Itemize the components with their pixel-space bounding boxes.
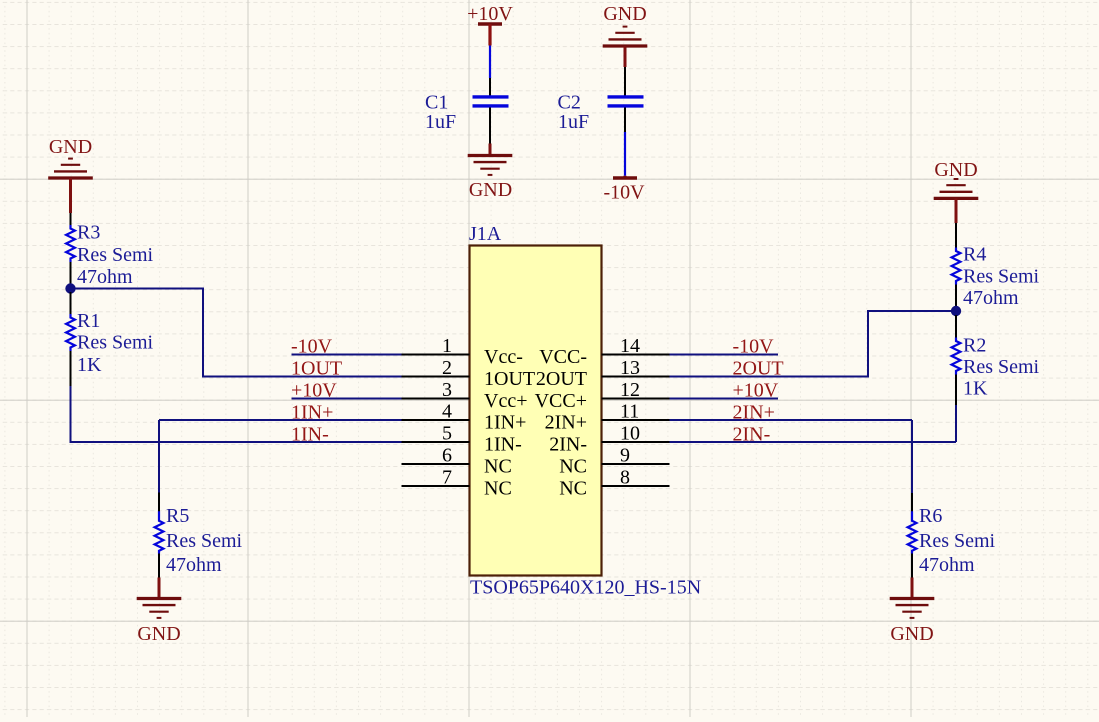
connector J1A body <box>470 246 602 576</box>
resistor R6 <box>908 511 917 553</box>
svg-text:GND: GND <box>49 136 92 158</box>
svg-text:8: 8 <box>620 467 630 489</box>
svg-text:2IN-: 2IN- <box>733 423 771 445</box>
svg-text:2OUT: 2OUT <box>733 358 784 380</box>
power port -10V bar <box>613 176 637 179</box>
svg-text:-10V: -10V <box>291 336 333 358</box>
svg-text:9: 9 <box>620 445 630 467</box>
svg-text:C1: C1 <box>425 91 448 113</box>
svg-text:GND: GND <box>934 159 977 181</box>
R3 top pin <box>70 213 72 225</box>
C2 bottom pin <box>624 108 626 133</box>
wire net 2IN+ <box>670 419 913 421</box>
C1 bottom pin <box>489 108 491 144</box>
wire net +10V right <box>670 398 779 400</box>
junction node R4/R2 <box>951 306 961 316</box>
svg-text:NC: NC <box>559 456 587 478</box>
ground stem C2 <box>624 46 627 67</box>
svg-text:1IN+: 1IN+ <box>484 412 526 434</box>
C2 top pin <box>624 67 626 96</box>
svg-text:+10V: +10V <box>291 380 337 402</box>
ground stem above R3 <box>69 178 72 213</box>
svg-text:GND: GND <box>890 623 933 645</box>
pin 8 <box>602 485 670 487</box>
svg-text:1: 1 <box>442 335 452 357</box>
pin 1 <box>402 354 470 356</box>
svg-text:7: 7 <box>442 467 452 489</box>
R6 bottom pin <box>911 554 913 578</box>
power port +10V stem <box>488 24 491 46</box>
svg-text:TSOP65P640X120_HS-15N: TSOP65P640X120_HS-15N <box>470 577 701 599</box>
svg-text:Res Semi: Res Semi <box>963 356 1040 378</box>
resistor R5 <box>155 511 164 553</box>
pin 10 <box>602 441 670 443</box>
svg-text:14: 14 <box>620 335 640 357</box>
svg-text:GND: GND <box>137 623 180 645</box>
svg-text:NC: NC <box>484 478 512 500</box>
power port +10V bar <box>478 22 502 25</box>
svg-text:4: 4 <box>442 401 452 423</box>
svg-text:C2: C2 <box>558 91 581 113</box>
capacitor C2 <box>608 97 644 106</box>
R2 top pin <box>955 315 957 338</box>
svg-text:R5: R5 <box>166 505 189 527</box>
svg-text:Vcc-: Vcc- <box>484 346 523 368</box>
wire net +10V left <box>292 398 402 400</box>
R5 top pin <box>158 493 160 512</box>
svg-text:2IN+: 2IN+ <box>733 401 775 423</box>
wire net 1IN+ <box>159 419 402 421</box>
pin 9 <box>602 463 670 465</box>
wire net 2OUT <box>670 311 957 377</box>
svg-text:1IN-: 1IN- <box>291 423 329 445</box>
svg-text:R3: R3 <box>77 222 100 244</box>
pin 6 <box>402 463 470 465</box>
svg-text:5: 5 <box>442 423 452 445</box>
pin 14 <box>602 354 670 356</box>
svg-text:Res Semi: Res Semi <box>77 244 154 266</box>
svg-text:2IN+: 2IN+ <box>545 412 587 434</box>
svg-text:+10V: +10V <box>467 3 513 25</box>
svg-text:1OUT: 1OUT <box>291 358 342 380</box>
R5 bottom pin <box>158 554 160 578</box>
capacitor C1 <box>473 97 509 106</box>
svg-text:6: 6 <box>442 445 452 467</box>
svg-text:47ohm: 47ohm <box>963 287 1019 309</box>
svg-text:R6: R6 <box>919 505 942 527</box>
wire net 2IN- <box>670 441 957 443</box>
junction node R3/R1 <box>65 283 75 293</box>
ground symbol below C1 <box>468 156 513 175</box>
ground symbol above C2 <box>603 27 648 46</box>
svg-text:47ohm: 47ohm <box>77 266 133 288</box>
svg-text:10: 10 <box>620 423 640 445</box>
wire net 1OUT <box>71 289 402 377</box>
R4 top pin <box>955 223 957 248</box>
svg-text:3: 3 <box>442 379 452 401</box>
ground stem below R6 <box>911 578 914 599</box>
svg-text:1uF: 1uF <box>425 111 456 133</box>
wire 2IN+ down to R6 <box>911 420 913 493</box>
svg-text:1uF: 1uF <box>558 111 589 133</box>
svg-text:1OUT: 1OUT <box>484 368 535 390</box>
svg-text:2OUT: 2OUT <box>536 368 587 390</box>
svg-text:47ohm: 47ohm <box>919 554 975 576</box>
ground symbol below R5 <box>137 599 182 618</box>
ground symbol above R3 <box>48 159 93 178</box>
R3 bottom pin <box>70 262 72 285</box>
pin 12 <box>602 398 670 400</box>
resistor R1 <box>66 314 75 351</box>
svg-text:NC: NC <box>484 456 512 478</box>
resistor R3 <box>66 225 75 262</box>
wire net -10V right <box>670 354 779 356</box>
pin 13 <box>602 376 670 378</box>
resistor R4 <box>952 248 961 285</box>
pin 7 <box>402 485 470 487</box>
svg-text:1K: 1K <box>963 378 988 400</box>
svg-text:R1: R1 <box>77 310 100 332</box>
svg-text:13: 13 <box>620 357 640 379</box>
pin 2 <box>402 376 470 378</box>
R1 top pin <box>70 292 72 314</box>
pin 3 <box>402 398 470 400</box>
svg-text:-10V: -10V <box>733 336 775 358</box>
svg-text:+10V: +10V <box>733 380 779 402</box>
svg-text:11: 11 <box>620 401 639 423</box>
wire R2 to 2IN- <box>955 405 957 442</box>
svg-text:1K: 1K <box>77 354 102 376</box>
svg-text:NC: NC <box>559 478 587 500</box>
R2 bottom pin <box>955 375 957 406</box>
R6 top pin <box>911 493 913 512</box>
svg-text:VCC-: VCC- <box>539 346 587 368</box>
svg-text:-10V: -10V <box>603 182 645 204</box>
ground symbol below R6 <box>890 599 935 618</box>
pin 11 <box>602 419 670 421</box>
wire 1IN+ down to R5 <box>158 420 160 493</box>
svg-text:1IN+: 1IN+ <box>291 401 333 423</box>
svg-text:GND: GND <box>469 179 512 201</box>
wire net -10V left <box>292 354 402 356</box>
wire +10V to C1 <box>489 46 491 79</box>
svg-text:47ohm: 47ohm <box>166 554 222 576</box>
resistor R2 <box>952 338 961 375</box>
ground stem C1 <box>489 144 492 156</box>
R4 bottom pin <box>955 285 957 308</box>
pin 4 <box>402 419 470 421</box>
svg-text:2: 2 <box>442 357 452 379</box>
wire net 1IN- <box>71 386 402 442</box>
svg-text:R4: R4 <box>963 244 986 266</box>
ground stem below R5 <box>158 578 161 599</box>
svg-text:Res Semi: Res Semi <box>963 266 1040 288</box>
R1 bottom pin <box>70 351 72 386</box>
ground symbol above R4 <box>934 179 979 198</box>
pin 5 <box>402 441 470 443</box>
svg-text:J1A: J1A <box>469 223 502 245</box>
svg-text:Res Semi: Res Semi <box>919 530 996 552</box>
wire C2 to -10V <box>624 132 626 176</box>
svg-text:Vcc+: Vcc+ <box>484 390 527 412</box>
svg-text:Res Semi: Res Semi <box>77 332 154 354</box>
svg-text:Res Semi: Res Semi <box>166 530 243 552</box>
power port -10V stem <box>623 176 626 178</box>
C1 top pin <box>489 78 491 96</box>
svg-text:2IN-: 2IN- <box>549 434 587 456</box>
svg-text:R2: R2 <box>963 335 986 357</box>
svg-text:12: 12 <box>620 379 640 401</box>
ground stem above R4 <box>955 198 958 223</box>
svg-text:GND: GND <box>603 3 646 25</box>
svg-text:1IN-: 1IN- <box>484 434 522 456</box>
svg-text:VCC+: VCC+ <box>535 390 587 412</box>
